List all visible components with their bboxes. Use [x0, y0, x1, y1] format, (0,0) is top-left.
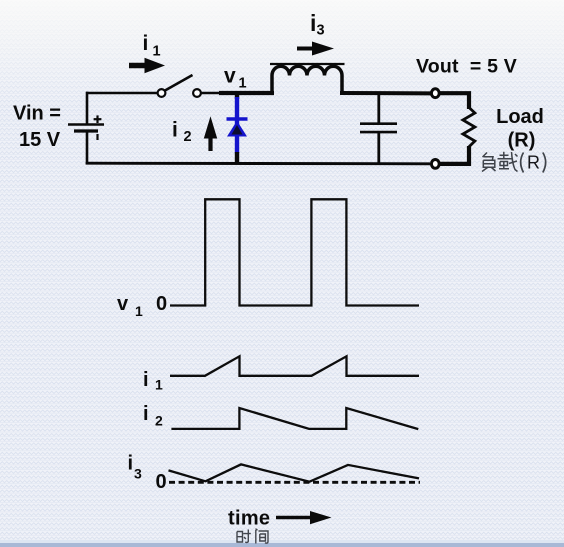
wire: switch to node v1	[201, 92, 221, 95]
output terminal bottom	[431, 160, 439, 169]
arrow i3	[297, 42, 334, 56]
wire: top terminal to load corner (thick)	[440, 93, 469, 109]
battery B1 plates	[68, 125, 104, 132]
label v1 0 (waveform)	[117, 293, 167, 319]
wire: load bottom to bottom terminal (thick)	[440, 146, 469, 164]
svg-text:i: i	[143, 403, 149, 425]
svg-text:1: 1	[135, 303, 143, 319]
svg-text:2: 2	[184, 129, 192, 145]
svg-text:0: 0	[156, 293, 167, 315]
svg-text:v: v	[224, 65, 236, 88]
battery plus sign	[94, 115, 102, 123]
svg-text:Vin =: Vin =	[13, 103, 61, 125]
svg-text:3: 3	[134, 466, 142, 482]
svg-text:v: v	[117, 293, 129, 315]
wire: inductor to output terminal (thick)	[340, 91, 431, 95]
wire: thick node v1 segment	[219, 91, 274, 95]
label Load (R)	[496, 106, 544, 152]
waveform i3 dashed zero line	[169, 481, 420, 484]
label 负载（R） (hand-drawn CJK strokes)	[482, 152, 546, 173]
svg-text:1: 1	[239, 76, 247, 92]
svg-text:1: 1	[153, 44, 161, 60]
svg-text:i: i	[310, 10, 316, 36]
battery minus tick	[96, 134, 98, 140]
时	[237, 530, 251, 543]
arrow i1	[129, 58, 165, 74]
waveform i2 trace	[171, 408, 418, 429]
resistor R1 (load)	[463, 108, 475, 147]
label i3 (waveform)	[128, 453, 143, 482]
diode D1 (blue)	[227, 93, 248, 163]
svg-text:R: R	[527, 153, 540, 173]
svg-text:Load: Load	[496, 106, 544, 128]
label i2	[172, 119, 192, 146]
svg-text:(R): (R)	[508, 130, 536, 152]
svg-text:i: i	[143, 32, 149, 55]
间	[256, 529, 269, 544]
fullwidth paren right	[543, 153, 546, 173]
arrow time axis	[276, 511, 332, 524]
wire: battery left vertical top	[86, 92, 89, 125]
svg-text:i: i	[128, 453, 134, 475]
waveform i3 trace	[169, 464, 420, 481]
label i2 (waveform)	[143, 403, 163, 429]
waveform v1 trace	[170, 199, 419, 305]
svg-text:i: i	[172, 119, 178, 142]
负	[482, 153, 496, 172]
svg-text:2: 2	[155, 413, 163, 429]
载	[498, 152, 518, 172]
svg-text:i: i	[143, 369, 149, 391]
inductor L1	[270, 64, 345, 95]
bottom border band	[0, 540, 564, 547]
svg-text:15 V: 15 V	[19, 129, 61, 151]
capacitor C1	[360, 93, 397, 163]
output terminal top	[431, 89, 439, 98]
label v1	[224, 65, 247, 92]
wire: battery left vertical bottom	[86, 131, 89, 165]
fullwidth paren left	[521, 153, 524, 173]
svg-text:1: 1	[155, 377, 163, 393]
svg-text:0: 0	[156, 471, 167, 493]
label i3	[310, 10, 325, 39]
arrow i2	[204, 116, 217, 151]
switch S1	[158, 75, 201, 97]
svg-text:time: time	[228, 508, 270, 530]
wire: battery top to switch	[86, 92, 158, 95]
svg-text:Vout = 5 V: Vout = 5 V	[416, 56, 517, 78]
label i1 (waveform)	[143, 369, 163, 393]
svg-text:3: 3	[317, 23, 325, 39]
label 时间 (hand-drawn CJK strokes)	[237, 529, 268, 544]
label i1	[143, 32, 161, 60]
wire: bottom rail	[86, 162, 430, 166]
label Vin = 15 V	[13, 103, 61, 152]
waveform i1 trace	[170, 356, 419, 376]
